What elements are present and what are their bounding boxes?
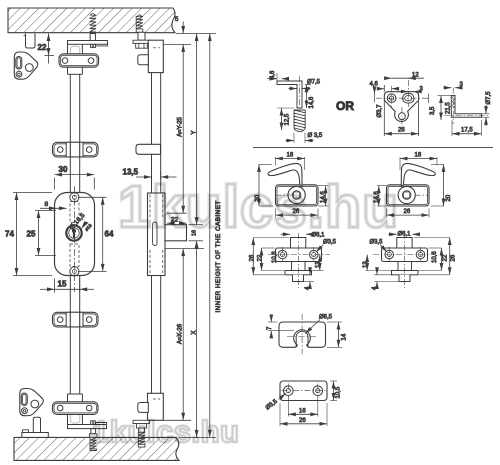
dim diam 7,5 L bracket	[482, 91, 492, 126]
svg-text:4,6: 4,6	[370, 82, 379, 88]
svg-text:1kulcs.hu: 1kulcs.hu	[92, 414, 240, 449]
dim 12 keeper heart	[385, 73, 424, 79]
svg-text:21,5: 21,5	[445, 102, 451, 114]
rod 1 top screw thread	[90, 14, 96, 32]
top rail (hatched cabinet top)	[8, 8, 175, 33]
flat plate dims	[265, 381, 342, 426]
dim line A=X-26	[164, 249, 205, 421]
svg-text:12: 12	[412, 73, 419, 79]
svg-text:Ø6,5: Ø6,5	[319, 315, 333, 321]
keeper heart centerlines	[376, 80, 428, 131]
rod 1 bottom screw thread	[90, 437, 96, 450]
dim diam 3,5 screw hook	[286, 133, 323, 144]
bracket 1 centerlines	[268, 233, 330, 288]
bracket top view 2	[382, 238, 428, 282]
svg-text:4,6: 4,6	[270, 70, 276, 79]
watermark center	[118, 174, 399, 240]
flat plate centerlines	[282, 384, 326, 399]
guide plate 2	[53, 142, 99, 157]
separator line	[253, 147, 493, 149]
dim 15 below lock	[40, 279, 94, 293]
dim 4,6 keeper heart	[370, 82, 399, 93]
svg-text:22: 22	[442, 254, 448, 261]
rod 1 top hook arm and screw	[68, 34, 108, 48]
svg-text:Ø 3,5: Ø 3,5	[308, 133, 323, 139]
bracket 2 dims	[363, 232, 456, 291]
svg-text:Y: Y	[192, 130, 198, 134]
svg-text:22: 22	[38, 43, 47, 52]
dim 25	[27, 211, 57, 256]
svg-text:14,6: 14,6	[309, 96, 315, 108]
svg-text:26: 26	[404, 209, 411, 215]
dim 13,5	[123, 168, 177, 181]
rod 2 latch body	[148, 193, 166, 276]
svg-text:14: 14	[341, 333, 347, 340]
rod 2 collar stop	[136, 144, 161, 154]
dim 16 bolt height	[189, 218, 204, 248]
rod 2 bottom screw thread	[138, 432, 145, 447]
notched keeper centerlines	[287, 314, 317, 355]
shelf pin below top rail	[24, 34, 36, 49]
keyhole diameter label	[68, 212, 93, 232]
dim line A=Y-25	[178, 44, 184, 213]
svg-text:10,5: 10,5	[335, 386, 341, 398]
dim line inner height of the cabinet	[210, 34, 222, 438]
rod 1 flat bar bottom	[68, 394, 83, 425]
keeper plate bottom-left	[20, 389, 44, 416]
dim 3 L bracket	[444, 82, 464, 88]
svg-text:26: 26	[299, 418, 306, 424]
dim 21,5 L bracket	[438, 96, 452, 121]
svg-text:Ø3,5: Ø3,5	[370, 240, 384, 246]
svg-text:74: 74	[5, 230, 14, 239]
svg-text:Ø6,1: Ø6,1	[398, 232, 412, 238]
svg-text:18: 18	[415, 153, 422, 159]
svg-text:3,5: 3,5	[430, 106, 436, 115]
svg-text:1kulcs.hu: 1kulcs.hu	[118, 174, 399, 240]
svg-text:22: 22	[258, 254, 264, 261]
svg-text:12,5: 12,5	[284, 113, 290, 125]
svg-text:8: 8	[45, 201, 49, 208]
dim 3 keeper heart	[403, 87, 424, 93]
svg-text:26: 26	[249, 254, 255, 261]
hook 1 front view	[268, 163, 318, 206]
notched keeper dims	[267, 315, 348, 348]
dim 3,5 keeper heart	[429, 94, 436, 116]
dim 22 keeper	[38, 34, 55, 64]
svg-text:Ø3,5: Ø3,5	[323, 240, 337, 246]
dim 74	[5, 193, 52, 276]
bracket 2 centerlines	[373, 233, 435, 288]
dim diam 7,5 screw hook	[289, 80, 321, 89]
hook 2 front view	[387, 163, 436, 206]
svg-text:17,5: 17,5	[461, 128, 473, 134]
svg-text:A=Y-25: A=Y-25	[178, 117, 184, 137]
lock body	[55, 186, 95, 292]
svg-text:A=X-26: A=X-26	[178, 323, 184, 344]
svg-text:30: 30	[59, 165, 68, 174]
svg-text:Ø7,5: Ø7,5	[486, 91, 492, 105]
flat plate with two holes	[280, 381, 327, 401]
svg-text:13: 13	[316, 261, 322, 268]
screw hook side view	[277, 76, 302, 112]
svg-text:18: 18	[287, 153, 294, 159]
keeper plate top-left	[14, 52, 38, 79]
dim 64	[78, 197, 114, 271]
rod 1 bottom hook arm and screw	[68, 421, 107, 438]
dim 12,5 screw hook	[277, 108, 294, 130]
svg-text:26: 26	[398, 128, 405, 134]
rod 2 bottom block	[133, 393, 163, 432]
L bracket centerlines	[444, 88, 488, 125]
dim 22 bolt	[167, 213, 187, 223]
svg-text:X: X	[191, 330, 197, 334]
guide plate 4 (bottom)	[53, 402, 99, 415]
bracket 1 dims	[249, 233, 336, 291]
rod 1 (left vertical rod)	[70, 74, 79, 394]
guide plate 3	[53, 312, 99, 327]
notched keeper front view	[279, 322, 326, 347]
dim line X	[191, 241, 197, 438]
svg-text:15: 15	[58, 280, 67, 289]
watermark bottom	[92, 414, 240, 449]
svg-text:10,6: 10,6	[272, 251, 278, 263]
bracket top view 1	[276, 238, 322, 282]
screw hook thread coil	[294, 110, 305, 132]
latch bolt block	[165, 225, 187, 241]
dim 14,6 screw hook	[305, 85, 315, 109]
dim 5 top gap	[175, 17, 183, 34]
svg-text:26: 26	[450, 254, 456, 261]
svg-text:64: 64	[105, 230, 114, 239]
svg-text:OR: OR	[336, 99, 354, 113]
rod 2 (right vertical rod)	[152, 73, 161, 394]
bottom rail (hatched cabinet floor)	[14, 437, 179, 460]
dim 4,6 screw hook	[267, 70, 289, 85]
svg-text:13: 13	[363, 261, 369, 268]
L bracket side view	[451, 96, 481, 118]
dim 8	[40, 201, 67, 208]
dim line Y	[192, 34, 198, 225]
guide plate 1 (top)	[59, 54, 99, 67]
svg-text:25: 25	[27, 230, 36, 239]
svg-text:16: 16	[299, 408, 306, 414]
dim 26 keeper heart	[384, 101, 418, 136]
extension line bottom of top rail	[176, 33, 216, 35]
dim diam 3,7 keeper heart	[375, 89, 383, 118]
rod 2 top screw and latch block	[133, 15, 191, 73]
dim 17,5 L bracket	[452, 120, 482, 136]
bottom-left pin and base plate	[22, 417, 49, 437]
svg-text:Ø3,7: Ø3,7	[377, 104, 383, 118]
hook 2 dims	[374, 153, 452, 218]
hook 1 dims	[255, 153, 329, 218]
keyhole	[66, 225, 81, 240]
dim 30 above lock	[55, 165, 95, 190]
rod 1 flat bar top	[68, 44, 83, 74]
keeper plate front view (heart)	[384, 92, 418, 122]
svg-text:20: 20	[446, 194, 452, 201]
extension line top of bottom rail	[179, 436, 216, 438]
svg-text:10,6: 10,6	[432, 251, 438, 263]
